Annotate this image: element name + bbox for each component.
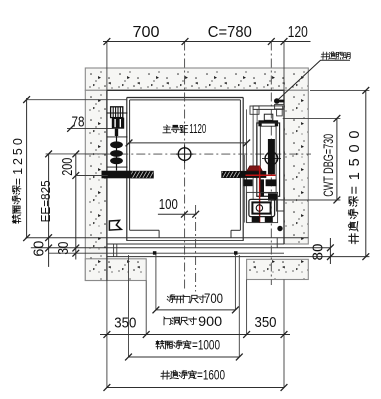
svg-text:60: 60 xyxy=(32,241,48,257)
svg-text:80: 80 xyxy=(310,244,326,261)
svg-text:30: 30 xyxy=(56,242,72,255)
svg-text:700: 700 xyxy=(204,291,223,306)
svg-text:CWT DBG=730: CWT DBG=730 xyxy=(321,134,336,197)
svg-text:=1000: =1000 xyxy=(192,338,220,353)
svg-text:EE=825: EE=825 xyxy=(38,180,53,222)
svg-text:350: 350 xyxy=(255,314,277,331)
svg-text:=1250: =1250 xyxy=(11,138,25,185)
svg-text:1120: 1120 xyxy=(189,122,206,136)
svg-text:200: 200 xyxy=(60,158,76,176)
svg-text:100: 100 xyxy=(159,196,178,213)
svg-text:700: 700 xyxy=(133,24,160,41)
svg-text:900: 900 xyxy=(198,313,222,329)
svg-text:=1600: =1600 xyxy=(197,368,225,383)
svg-text:C=780: C=780 xyxy=(208,24,252,41)
svg-text:350: 350 xyxy=(114,315,136,332)
svg-text:120: 120 xyxy=(288,24,308,41)
